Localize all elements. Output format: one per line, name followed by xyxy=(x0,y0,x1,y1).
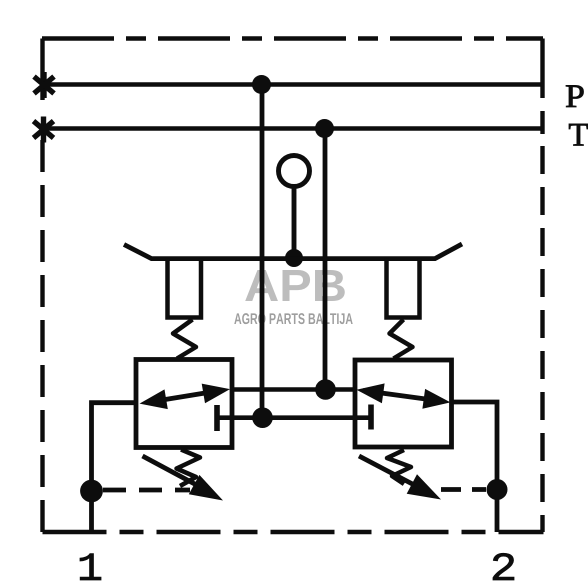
watermark APB logo xyxy=(245,270,345,301)
enclosure dashed border right xyxy=(540,39,544,135)
wire: dashed pilot to port 1 xyxy=(103,488,190,493)
valve body left xyxy=(136,360,232,448)
wire: T return line xyxy=(43,126,542,131)
node: port 1 junction xyxy=(80,480,103,503)
enclosure dashed border left xyxy=(40,39,44,101)
relief adjust arrow left xyxy=(143,456,206,490)
control lever stem xyxy=(292,187,297,254)
plugged port symbol on P line xyxy=(34,72,54,98)
detent plunger right xyxy=(387,259,420,318)
node: junction on P line xyxy=(252,75,271,94)
wire: P supply line xyxy=(44,82,542,87)
wire: T drop to bridge node xyxy=(323,129,328,390)
blocked port bar right valve xyxy=(368,405,374,430)
wire: pilot line between blocked ports xyxy=(217,415,371,420)
flow arrow in left valve xyxy=(146,390,222,402)
wire: work line to port 1 xyxy=(92,403,137,532)
wire: work line to port 2 xyxy=(452,402,498,532)
label port 1 xyxy=(80,554,101,580)
relief spring left xyxy=(177,450,201,487)
enclosure dashed border top xyxy=(42,36,543,40)
spool cap plate xyxy=(124,244,462,259)
node: port 2 junction xyxy=(487,479,508,500)
label P xyxy=(566,85,584,107)
node: lever pivot on cap xyxy=(285,249,303,267)
flow arrow in right valve xyxy=(363,391,444,402)
label T xyxy=(569,124,588,146)
valve body right xyxy=(355,360,452,447)
detent spring right xyxy=(390,320,413,359)
control lever knob xyxy=(279,156,310,187)
detent plunger left xyxy=(168,259,202,318)
enclosure dashed border bottom xyxy=(43,530,544,534)
node: pilot junction xyxy=(252,407,273,428)
blocked port bar left valve xyxy=(214,405,220,431)
wire: bridge between valves xyxy=(232,387,355,392)
node: bridge junction xyxy=(315,379,336,400)
relief adjust arrow right xyxy=(359,456,421,489)
wire: P drop to pilot node xyxy=(260,85,265,418)
node: junction on T line xyxy=(315,119,334,138)
label port 2 xyxy=(493,553,514,580)
detent spring left xyxy=(173,320,196,359)
plugged port symbol on T line xyxy=(34,117,54,143)
wire: dashed pilot to port 2 xyxy=(441,487,486,492)
relief spring right xyxy=(387,450,411,484)
